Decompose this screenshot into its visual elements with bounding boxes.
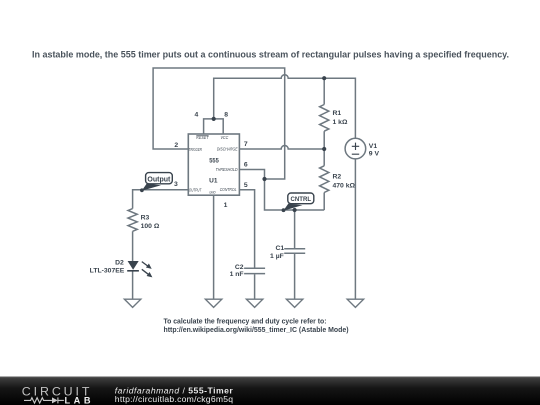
svg-text:C2: C2	[235, 264, 244, 271]
svg-text:C1: C1	[275, 245, 284, 252]
svg-text:R3: R3	[141, 215, 150, 222]
svg-text:In astable mode, the 555 timer: In astable mode, the 555 timer puts out …	[32, 50, 509, 60]
svg-text:5: 5	[244, 182, 248, 189]
svg-text:8: 8	[224, 111, 228, 118]
svg-text:VCC: VCC	[220, 135, 229, 140]
svg-text:GND: GND	[209, 190, 216, 194]
svg-text:555: 555	[209, 157, 219, 164]
svg-text:3: 3	[174, 181, 178, 188]
svg-text:V1: V1	[369, 143, 378, 150]
svg-text:CIRCUIT: CIRCUIT	[22, 384, 93, 398]
svg-text:TRIGGER: TRIGGER	[189, 147, 202, 152]
svg-text:http://circuitlab.com/ckg6m5q: http://circuitlab.com/ckg6m5q	[115, 394, 234, 404]
svg-text:R2: R2	[333, 173, 342, 180]
svg-text:6: 6	[244, 161, 248, 168]
svg-text:1 nF: 1 nF	[230, 271, 244, 278]
svg-text:LAB: LAB	[65, 395, 91, 405]
svg-text:1 kΩ: 1 kΩ	[333, 119, 348, 126]
svg-text:OUTPUT: OUTPUT	[189, 187, 202, 192]
svg-text:2: 2	[174, 142, 178, 149]
svg-text:THRESHOLD: THRESHOLD	[216, 167, 238, 172]
svg-text:D2: D2	[115, 260, 124, 267]
svg-text:7: 7	[244, 141, 248, 148]
svg-text:100 Ω: 100 Ω	[141, 223, 160, 230]
svg-text:http://en.wikipedia.org/wiki/5: http://en.wikipedia.org/wiki/555_timer_I…	[164, 327, 349, 334]
svg-text:To calculate the frequency and: To calculate the frequency and duty cycl…	[164, 318, 327, 325]
svg-text:CONTROL: CONTROL	[220, 187, 237, 192]
svg-text:4: 4	[195, 111, 199, 118]
svg-text:R1: R1	[333, 110, 342, 117]
svg-text:470 kΩ: 470 kΩ	[333, 182, 356, 189]
svg-text:1 µF: 1 µF	[270, 253, 284, 260]
svg-text:DISCHARGE: DISCHARGE	[217, 146, 238, 151]
svg-text:Output: Output	[147, 176, 171, 183]
svg-text:9 V: 9 V	[369, 151, 380, 158]
svg-text:1: 1	[224, 202, 228, 209]
svg-text:LTL-307EE: LTL-307EE	[90, 267, 125, 274]
svg-text:U1: U1	[209, 177, 218, 184]
svg-text:CNTRL: CNTRL	[291, 196, 312, 203]
